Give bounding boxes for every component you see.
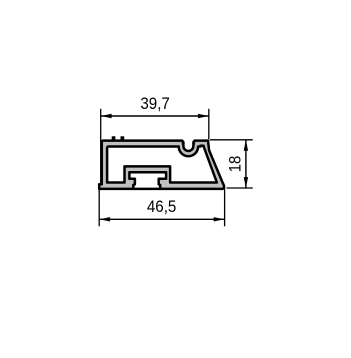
serration bump 1 on top edge — [112, 136, 116, 141]
extension line bottom-right (46,5) — [224, 189, 226, 226]
extension line top-left (39,7) — [100, 109, 102, 185]
extension line top-right (39,7) — [208, 109, 210, 139]
extension line 18 bottom — [227, 187, 253, 189]
dimension line 46,5 — [99, 218, 224, 220]
arrow left 39,7 — [101, 114, 112, 118]
serration bump 2 on top edge — [121, 136, 125, 141]
profile cross-section body (outer contour with notch, mouth and foot; inner chamber hole) — [99, 141, 224, 189]
arrow right 46,5 — [214, 217, 225, 221]
arrow top 18 — [244, 140, 248, 151]
svg-text:46,5: 46,5 — [147, 198, 177, 216]
extension line 18 top — [210, 139, 253, 141]
arrow right 39,7 — [198, 114, 209, 118]
dimension line 18 — [245, 140, 247, 188]
dimension line 39,7 — [101, 115, 209, 117]
svg-text:39,7: 39,7 — [140, 96, 170, 114]
arrow left 46,5 — [99, 217, 110, 221]
svg-text:18: 18 — [227, 155, 245, 172]
arrow bottom 18 — [244, 177, 248, 188]
extension line bottom-left (46,5) — [98, 185, 100, 226]
